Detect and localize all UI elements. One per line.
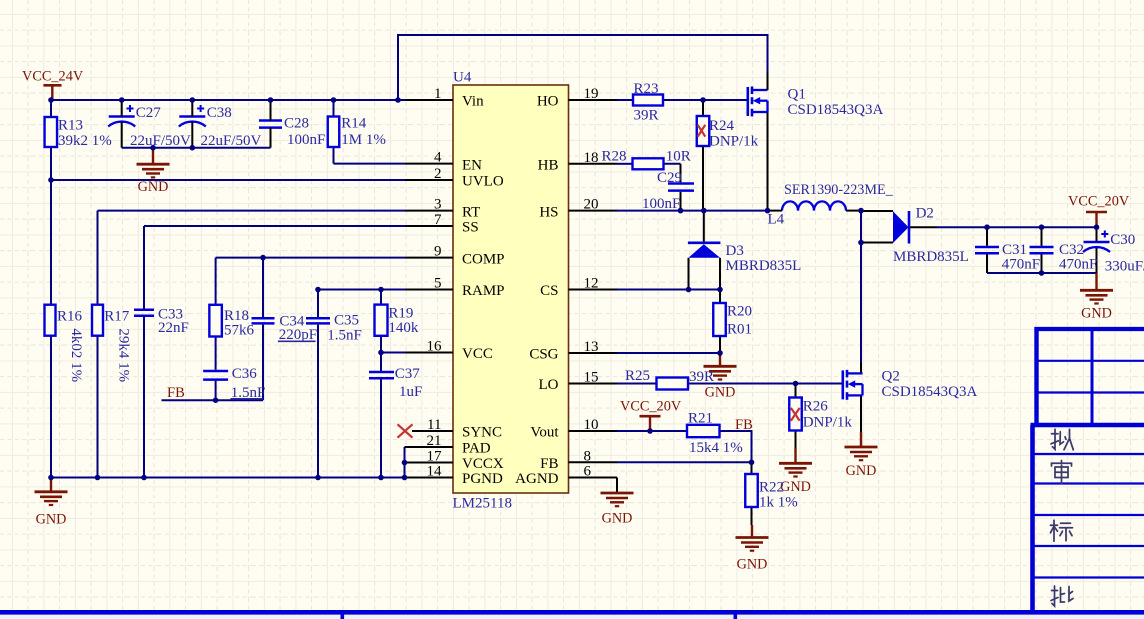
junction (861,210.6) <box>858 208 864 214</box>
resistor R17 <box>92 305 103 336</box>
svg-text:4k02 1%: 4k02 1% <box>68 328 84 382</box>
capacitor C36 <box>203 370 228 373</box>
U4 pin 6 AGND <box>569 477 618 479</box>
wire cap bottom rail <box>122 147 271 149</box>
svg-text:COMP: COMP <box>462 251 505 267</box>
junction (861,242.5) <box>858 240 864 246</box>
junction (720,353) <box>717 350 723 356</box>
svg-text:C37: C37 <box>395 366 421 382</box>
svg-text:6: 6 <box>584 464 592 480</box>
wire VCC_24V rail to Vin <box>51 99 405 101</box>
wire R21 to FB node <box>720 431 752 462</box>
svg-text:22nF: 22nF <box>158 320 189 336</box>
U4 pin 4 EN <box>405 163 453 165</box>
resistor R13 <box>45 117 58 147</box>
svg-text:C38: C38 <box>207 105 232 121</box>
svg-text:FB: FB <box>167 385 185 401</box>
wire CS to D3 and R20 <box>569 289 721 291</box>
svg-text:39R: 39R <box>634 108 659 124</box>
wire C37 column <box>380 353 382 372</box>
wire top loop Vin to Q1 drain <box>398 35 768 100</box>
svg-text:C29: C29 <box>657 170 682 186</box>
junction (680.5,210.6) <box>678 208 684 214</box>
svg-text:SER1390-223ME_: SER1390-223ME_ <box>784 182 894 198</box>
wire EN from R14 <box>333 100 335 164</box>
capacitor C27 (polarized) <box>109 115 135 118</box>
wire node FB segment <box>162 399 264 401</box>
junction (318,477.5) <box>315 475 321 481</box>
wire R19 column <box>380 290 382 305</box>
svg-text:29k4 1%: 29k4 1% <box>116 328 132 382</box>
svg-text:10R: 10R <box>666 148 691 164</box>
U4 pin 7 SS <box>405 225 453 227</box>
U4 pin 18 HB <box>569 163 618 165</box>
svg-text:1.5nF: 1.5nF <box>327 327 362 343</box>
wire VCC pin16 <box>381 352 405 354</box>
U4 pin 20 HS <box>569 210 618 212</box>
svg-text:15k4 1%: 15k4 1% <box>689 440 743 456</box>
svg-text:C35: C35 <box>334 313 359 329</box>
svg-text:100nF: 100nF <box>642 196 680 212</box>
svg-text:4: 4 <box>434 150 442 166</box>
capacitor C28 <box>259 119 282 122</box>
ground GND7 (AGND) <box>601 492 634 495</box>
capacitor C37 <box>369 371 394 374</box>
svg-text:CSD18543Q3A: CSD18543Q3A <box>788 102 884 118</box>
U4 pin 9 COMP <box>405 257 453 259</box>
svg-text:VCC_20V: VCC_20V <box>620 399 682 415</box>
power port VCC_24V <box>43 84 61 87</box>
svg-text:R01: R01 <box>727 322 752 338</box>
U4 pin 14 PGND <box>405 477 453 479</box>
ground GND5 (R26) <box>794 448 796 463</box>
svg-text:R14: R14 <box>341 115 367 131</box>
ground GND8 (C30) <box>1095 273 1097 290</box>
ground GND4 (Q2 source) <box>845 446 878 449</box>
resistor R28 <box>633 158 664 169</box>
svg-text:R28: R28 <box>602 148 627 164</box>
wire PAD/VCCX column <box>404 447 406 478</box>
wire RAMP to C35 <box>318 289 405 291</box>
svg-text:GND: GND <box>780 479 811 495</box>
wire R18 to C36 to FB <box>215 337 217 370</box>
svg-text:DNP/1k: DNP/1k <box>803 415 853 431</box>
svg-text:Q2: Q2 <box>882 369 900 385</box>
svg-text:DNP/1k: DNP/1k <box>709 134 759 150</box>
resistor R21 <box>687 425 720 437</box>
svg-text:8: 8 <box>584 448 592 464</box>
junction (987,227.2) <box>984 224 990 230</box>
no-ERC mark on SYNC <box>398 424 413 437</box>
wire C32 stem <box>1041 227 1043 246</box>
junction (333.5,100) <box>331 97 337 103</box>
wire R20 column <box>719 290 721 304</box>
svg-text:GND: GND <box>138 179 169 195</box>
svg-text:VCC_20V: VCC_20V <box>1068 194 1130 210</box>
svg-text:VCC: VCC <box>462 346 493 362</box>
svg-text:R22: R22 <box>759 480 784 496</box>
wire C30 stem <box>1096 227 1098 241</box>
junction (263,257.6) <box>260 255 266 261</box>
resistor R26 <box>789 398 802 431</box>
capacitor C29 <box>668 182 694 185</box>
svg-text:FB: FB <box>540 456 558 472</box>
junction (703.8,210.6) <box>701 208 707 214</box>
svg-text:Vin: Vin <box>462 94 484 110</box>
junction (153,147.7) <box>150 145 156 151</box>
resistor R16 <box>45 305 56 336</box>
svg-text:SYNC: SYNC <box>462 425 502 441</box>
svg-text:Q1: Q1 <box>788 87 806 103</box>
svg-text:GND: GND <box>705 385 736 401</box>
power port VCC_20V output <box>1086 211 1107 214</box>
wire HB to R28 to C29 <box>617 163 633 165</box>
svg-text:GND: GND <box>1081 306 1112 322</box>
svg-text:GND: GND <box>846 463 877 479</box>
svg-text:470nF: 470nF <box>1002 257 1040 273</box>
junction (51,100) <box>48 97 54 103</box>
svg-text:L4: L4 <box>768 212 785 228</box>
svg-text:13: 13 <box>584 339 599 355</box>
svg-text:19: 19 <box>584 86 599 102</box>
junction (751.5,462.3) <box>749 460 755 466</box>
U4 pin 8 FB <box>569 461 618 463</box>
svg-text:D3: D3 <box>726 243 744 259</box>
junction (404.5,477.5) <box>402 475 408 481</box>
title text 审 <box>1052 461 1072 484</box>
junction (121.7,100) <box>119 97 125 103</box>
capacitor C35 <box>306 317 330 320</box>
svg-text:3: 3 <box>434 197 442 213</box>
svg-text:470nF: 470nF <box>1059 257 1097 273</box>
junction (51,477.5) <box>48 475 54 481</box>
ground GND2 <box>50 478 52 492</box>
wire SS to C33 <box>144 225 405 227</box>
svg-text:AGND: AGND <box>515 471 558 487</box>
svg-text:5: 5 <box>434 276 442 292</box>
wire FB pin8 <box>617 461 752 463</box>
U4 pin 3 RT <box>405 210 453 212</box>
junction (1041.5,227.2) <box>1039 224 1045 230</box>
svg-text:15: 15 <box>584 370 599 386</box>
ground GND3 <box>719 353 721 366</box>
svg-text:R17: R17 <box>104 309 130 325</box>
ground GND1 <box>152 148 154 165</box>
wire Q1 source column <box>767 112 769 211</box>
title text 标 <box>1051 520 1073 541</box>
diode D2 MBRD835L <box>893 211 909 243</box>
svg-text:PGND: PGND <box>462 471 503 487</box>
svg-text:57k6: 57k6 <box>224 323 255 339</box>
junction (650,431) <box>647 428 653 434</box>
svg-text:C27: C27 <box>136 105 162 121</box>
svg-text:22uF/50V: 22uF/50V <box>130 133 191 149</box>
wire AGND pin6 <box>569 477 618 479</box>
junction (795.5,383.5) <box>793 381 799 387</box>
U4 pin 21 PAD <box>405 446 453 448</box>
wire D2 cathode to output rail <box>909 226 937 228</box>
svg-text:CSG: CSG <box>529 347 558 363</box>
svg-text:SS: SS <box>462 220 479 236</box>
wire CSG <box>569 352 721 354</box>
svg-text:C36: C36 <box>232 366 258 382</box>
svg-text:R24: R24 <box>709 118 735 134</box>
sheet zone tick 1 <box>341 615 345 619</box>
junction (703,100) <box>700 97 706 103</box>
wire R24 column <box>702 100 704 116</box>
junction (192.3,100) <box>190 97 196 103</box>
U4 pin 12 CS <box>569 289 618 291</box>
wire left column R16 to bus <box>50 180 52 478</box>
svg-text:9: 9 <box>434 244 442 260</box>
svg-text:MBRD835L: MBRD835L <box>726 258 802 274</box>
svg-text:C28: C28 <box>284 115 309 131</box>
resistor R24 <box>697 116 710 146</box>
svg-text:1k 1%: 1k 1% <box>759 494 798 510</box>
svg-text:100nF: 100nF <box>287 132 325 148</box>
U4 pin 5 RAMP <box>405 289 453 291</box>
underline 1.5nF <box>231 398 264 400</box>
svg-text:CSD18543Q3A: CSD18543Q3A <box>882 384 978 400</box>
wire R26 column <box>795 384 797 398</box>
svg-text:CS: CS <box>540 283 558 299</box>
U4 pin 19 HO <box>569 99 618 101</box>
svg-text:EN: EN <box>462 157 482 173</box>
junction (97.5,477.5) <box>95 475 101 481</box>
resistor R18 <box>209 305 222 337</box>
underline 220pF <box>278 340 316 342</box>
junction (192.3,147.7) <box>190 145 196 151</box>
svg-text:39k2 1%: 39k2 1% <box>58 133 112 149</box>
wire R13 column / UVLO <box>50 100 52 180</box>
svg-text:R21: R21 <box>688 411 713 427</box>
svg-text:LM25118: LM25118 <box>453 496 512 512</box>
junction (1096.5,227.2) <box>1094 224 1100 230</box>
U4 pin 2 UVLO <box>405 179 453 181</box>
wire C31 stem <box>986 227 988 246</box>
ground GND6 (R22) <box>751 525 753 538</box>
wire D2 anode legs <box>861 210 893 212</box>
junction (398,100) <box>395 97 401 103</box>
junction (381,289.5) <box>378 287 384 293</box>
capacitor C32 <box>1030 246 1054 249</box>
sheet border bottom <box>0 610 1144 615</box>
svg-text:U4: U4 <box>453 70 472 86</box>
U4 pin 17 VCCX <box>405 462 453 464</box>
svg-text:18: 18 <box>584 150 599 166</box>
junction (1041.5,273) <box>1039 270 1045 276</box>
wire R22 stem <box>751 462 753 474</box>
U4 pin 1 Vin <box>405 99 453 101</box>
U4 pin 11 SYNC <box>412 430 453 432</box>
wire RT to R17 <box>98 210 406 212</box>
junction (381,352.5) <box>378 350 384 356</box>
svg-text:FB: FB <box>735 417 753 433</box>
U4 pin 10 Vout <box>569 430 618 432</box>
resistor R20 <box>713 303 726 336</box>
svg-text:330uF/: 330uF/ <box>1105 258 1144 274</box>
svg-text:R25: R25 <box>625 368 650 384</box>
wire HO to Q1 gate <box>617 99 748 101</box>
title text 批 <box>1051 586 1073 606</box>
svg-text:2: 2 <box>434 166 442 182</box>
junction (767.5,210.6) <box>765 208 771 214</box>
svg-text:VCCX: VCCX <box>462 456 504 472</box>
junction (404.5,462.5) <box>402 460 408 466</box>
wire ground bus <box>51 477 405 479</box>
svg-text:140k: 140k <box>388 320 419 336</box>
junction (381,477.5) <box>378 475 384 481</box>
wire Q1 drain stub <box>767 72 769 90</box>
svg-text:R26: R26 <box>803 399 829 415</box>
svg-text:1uF: 1uF <box>399 384 422 400</box>
svg-text:7: 7 <box>434 212 442 228</box>
junction (720,289.5) <box>717 287 723 293</box>
junction (51,180) <box>48 177 54 183</box>
svg-text:R20: R20 <box>727 304 752 320</box>
junction (144,477.5) <box>141 475 147 481</box>
wire C29 stem <box>680 164 682 183</box>
wire Q2 source to ground <box>860 395 862 432</box>
U4 pin 13 CSG <box>569 352 618 354</box>
resistor R19 <box>375 305 388 336</box>
svg-text:C30: C30 <box>1110 232 1135 248</box>
svg-text:12: 12 <box>584 276 599 292</box>
svg-text:R23: R23 <box>634 81 659 97</box>
capacitor C30 (polarized) <box>1084 241 1110 244</box>
sheet zone tick 2 <box>734 615 738 619</box>
svg-text:C31: C31 <box>1002 242 1027 258</box>
svg-text:10: 10 <box>584 417 599 433</box>
svg-text:39R: 39R <box>689 369 714 385</box>
resistor R14 <box>328 117 340 148</box>
capacitor C31 <box>975 246 999 249</box>
svg-text:14: 14 <box>427 464 443 480</box>
wire output cap bottom rail <box>987 272 1097 274</box>
svg-text:MBRD835L: MBRD835L <box>893 249 969 265</box>
svg-text:D2: D2 <box>916 206 934 222</box>
wire LO to R25 to Q2 gate <box>617 383 657 385</box>
svg-text:PAD: PAD <box>462 441 491 457</box>
capacitor C38 (polarized) <box>179 115 205 118</box>
wire HS rail <box>617 210 768 212</box>
svg-text:16: 16 <box>427 339 443 355</box>
svg-text:RAMP: RAMP <box>462 283 505 299</box>
junction (215.6,400.2) <box>213 397 219 403</box>
svg-text:HS: HS <box>539 204 558 220</box>
svg-text:21: 21 <box>427 433 442 449</box>
wire D3 legs <box>703 211 705 242</box>
wire L4 right to Q2 drain column <box>846 210 861 212</box>
DNP mark R26 <box>791 408 800 421</box>
diode D3 MBRD835L <box>688 242 721 245</box>
svg-text:RT: RT <box>462 204 480 220</box>
wire COMP to R18 <box>216 257 405 259</box>
U4 pin 15 LO <box>569 383 618 385</box>
svg-text:GND: GND <box>737 557 768 573</box>
svg-text:1: 1 <box>434 86 442 102</box>
svg-text:HB: HB <box>538 158 559 174</box>
capacitor C33 <box>134 309 154 312</box>
svg-text:C32: C32 <box>1059 242 1084 258</box>
junction (318,289.5) <box>315 287 321 293</box>
svg-text:17: 17 <box>427 449 443 465</box>
title block table <box>1035 327 1144 331</box>
wire Vout to R21 <box>617 430 687 432</box>
resistor R22 <box>745 474 758 507</box>
svg-text:20: 20 <box>584 197 599 213</box>
op-amp U4 LM25118 controller body <box>453 85 569 493</box>
transistor Q2 CSD18543Q3A <box>841 370 844 399</box>
resistor R25 <box>657 378 689 390</box>
junction (270.5,100) <box>268 97 274 103</box>
junction (688.5,289.5) <box>686 287 692 293</box>
capacitor C34 <box>252 317 275 320</box>
U4 pin 16 VCC <box>405 352 453 354</box>
power port VCC_20V at Vout <box>640 415 661 418</box>
resistor R23 <box>633 95 663 106</box>
svg-text:R16: R16 <box>57 309 83 325</box>
svg-text:HO: HO <box>537 94 559 110</box>
title text 拟 <box>1051 429 1073 450</box>
svg-text:LO: LO <box>539 377 559 393</box>
transistor Q1 CSD18543Q3A <box>746 87 749 116</box>
inductor L4 SER1390-223ME_ <box>782 201 846 210</box>
svg-text:1M 1%: 1M 1% <box>341 132 386 148</box>
svg-text:R13: R13 <box>58 118 83 134</box>
svg-text:GND: GND <box>602 511 633 527</box>
DNP mark R24 <box>698 125 706 137</box>
wire VCCX stub <box>404 462 407 464</box>
svg-text:GND: GND <box>36 512 67 528</box>
svg-text:11: 11 <box>427 417 441 433</box>
svg-text:UVLO: UVLO <box>462 174 504 190</box>
svg-text:Vout: Vout <box>530 425 559 441</box>
svg-text:VCC_24V: VCC_24V <box>22 69 84 85</box>
wire C34 branch <box>262 258 264 317</box>
